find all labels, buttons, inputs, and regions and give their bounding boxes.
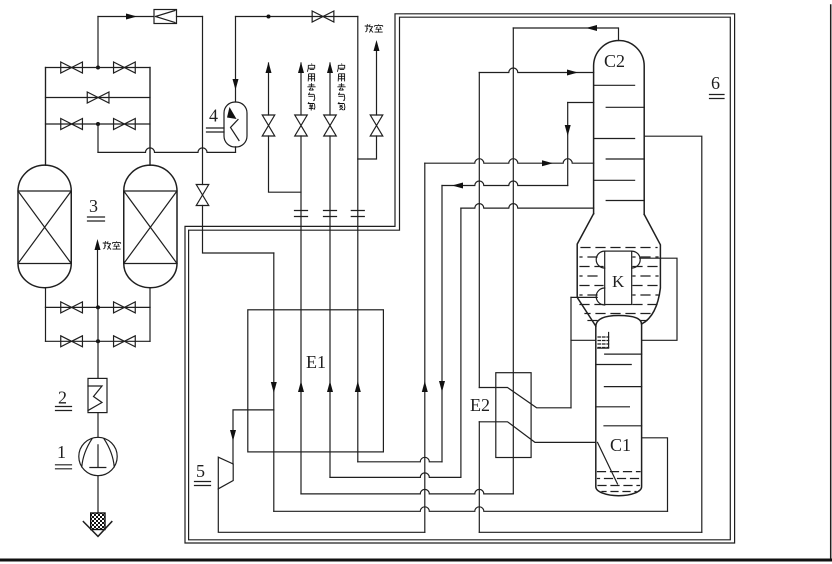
filter U2 zigzag bbox=[88, 386, 102, 411]
vent arrow mid bbox=[95, 239, 101, 250]
line vent riser bbox=[376, 51, 378, 115]
wire C1 feed drop bbox=[478, 422, 480, 533]
line O2 riser bbox=[268, 63, 270, 115]
sump shell left bbox=[577, 214, 596, 326]
manifold left bus bbox=[45, 68, 47, 166]
C2 tray 5 bbox=[594, 179, 635, 181]
valve VE1 bbox=[61, 336, 83, 347]
valve V10 bbox=[370, 115, 383, 136]
wire C2 upper tap bbox=[567, 103, 569, 186]
wire pump outlet bbox=[97, 476, 99, 513]
cold box 6 inner border bbox=[189, 17, 731, 540]
valve VD1 bbox=[61, 302, 83, 313]
node J2 bbox=[96, 122, 100, 126]
svg-text:C2: C2 bbox=[604, 51, 625, 71]
filter F1 bbox=[154, 10, 177, 24]
indicator U4 needle bbox=[231, 120, 240, 141]
C1 tray 3 bbox=[604, 386, 641, 388]
adsorber 1 bottom stem bbox=[45, 288, 47, 308]
line product 2 riser bbox=[329, 63, 331, 115]
valve VC1 bbox=[61, 119, 83, 130]
wire filter2 to pump bbox=[97, 413, 99, 438]
valve V9 bbox=[324, 115, 337, 136]
svg-text:K: K bbox=[612, 272, 625, 291]
wire V7 jog bbox=[269, 136, 302, 192]
column C2 shell bbox=[594, 40, 645, 214]
wire line E bbox=[218, 489, 424, 533]
line product 1 down bbox=[300, 136, 302, 494]
wire regen to gauge bbox=[97, 124, 99, 152]
wire top header drop bbox=[357, 17, 359, 462]
C1 liquid dashes bbox=[598, 471, 641, 473]
heat exchanger E1 bbox=[248, 310, 384, 452]
valve V5 bbox=[196, 185, 209, 206]
manifold row1 wire bbox=[46, 67, 151, 69]
svg-text:E1: E1 bbox=[306, 352, 326, 372]
wire line A riser bbox=[441, 186, 443, 462]
C1 tray 1 bbox=[605, 353, 642, 355]
wire down to valve V5 bbox=[202, 17, 204, 185]
manifold left bus low bbox=[45, 307, 47, 341]
svg-text:E2: E2 bbox=[470, 395, 490, 415]
C1 tray 5 bbox=[604, 425, 642, 427]
C2 tray 3 bbox=[594, 138, 635, 140]
valve VE2 bbox=[114, 336, 136, 347]
wire line D bbox=[274, 507, 668, 512]
C2 tray 4 bbox=[606, 158, 644, 160]
svg-text:3: 3 bbox=[89, 196, 98, 216]
node J3 bbox=[267, 15, 271, 19]
wire line D riser bbox=[642, 438, 668, 512]
condenser K lobe TL bbox=[596, 251, 604, 268]
expander U5 bbox=[218, 457, 233, 489]
valve VA1 bbox=[61, 62, 83, 73]
wire C2 top line bbox=[513, 28, 618, 41]
svg-text:C1: C1 bbox=[610, 435, 631, 455]
wire expander inlet bbox=[233, 410, 274, 464]
label vent top bbox=[365, 24, 373, 32]
valve VB1 bbox=[87, 92, 109, 103]
wire line B to C2 bbox=[461, 204, 594, 209]
manifold row4 wire bbox=[46, 306, 151, 308]
wire K feed drop bbox=[478, 73, 480, 388]
wire U4 top bbox=[235, 17, 237, 103]
wire K feed to E2 bbox=[479, 388, 571, 408]
wire K to C1 tap bbox=[571, 339, 596, 341]
adsorber vessel 1 shell bbox=[18, 165, 71, 288]
adsorber 2 bottom stem bbox=[149, 288, 151, 308]
wire E1 feed vertical bbox=[273, 253, 275, 511]
C1 tray 2 bbox=[596, 364, 631, 366]
pump U1 body bbox=[79, 437, 117, 475]
svg-text:1: 1 bbox=[57, 442, 66, 462]
indicator U4 body bbox=[224, 102, 247, 147]
valve VC2 bbox=[114, 119, 136, 130]
filter U2 body bbox=[88, 378, 107, 412]
wire line E riser bbox=[424, 163, 426, 532]
node J4 bbox=[96, 305, 100, 309]
wire V10 jog bbox=[358, 136, 377, 159]
C1 packing box bbox=[598, 333, 609, 349]
line product 2 down bbox=[329, 136, 331, 477]
manifold right bus bbox=[149, 68, 151, 166]
C2 tray 1 bbox=[594, 84, 635, 86]
adsorber 2 top stem bbox=[149, 68, 151, 166]
wire to filter 2 bbox=[97, 341, 99, 378]
svg-text:4: 4 bbox=[209, 106, 218, 126]
C2 tray 2 bbox=[606, 106, 644, 108]
wire filter to corner bbox=[177, 16, 203, 18]
cold box 6 outer border bbox=[185, 14, 735, 543]
condenser K lobe BL bbox=[596, 288, 604, 305]
svg-text:5: 5 bbox=[196, 461, 205, 481]
wire line B riser bbox=[460, 208, 462, 477]
svg-text:2: 2 bbox=[58, 388, 67, 408]
page right border bbox=[830, 5, 832, 558]
intake muffler bbox=[91, 513, 105, 530]
wire line C bbox=[301, 489, 513, 494]
tick marks line1 bbox=[295, 211, 308, 217]
condenser K lobe TR bbox=[632, 251, 641, 268]
valve VD2 bbox=[114, 302, 136, 313]
wire filter inlet bbox=[98, 16, 154, 18]
C1 tray 4 bbox=[596, 406, 630, 408]
pump U1 internals bbox=[90, 445, 106, 468]
wire K feed riser bbox=[570, 297, 572, 407]
page bottom frame line bbox=[0, 559, 832, 562]
column C1 shell bbox=[596, 324, 642, 496]
label oxygen to users bbox=[307, 64, 314, 72]
node J5 bbox=[96, 339, 100, 343]
wire line B bbox=[330, 473, 461, 478]
intake chevron bbox=[83, 522, 111, 537]
heat exchanger E2 bbox=[496, 373, 531, 458]
wire riser to manifold bbox=[97, 17, 99, 68]
label nitrogen to users bbox=[337, 64, 344, 72]
wire top header bbox=[236, 16, 358, 18]
wire C1 feed bbox=[479, 422, 596, 443]
manifold row3 wire bbox=[46, 123, 151, 125]
wire line F bbox=[479, 531, 702, 533]
tick marks line2 bbox=[324, 211, 337, 217]
sump liquid level dashes bbox=[581, 247, 657, 249]
wire V5 to E1 feed corner bbox=[203, 206, 274, 254]
wire row4-row5 center bbox=[97, 307, 99, 341]
svg-text:6: 6 bbox=[711, 73, 720, 93]
condenser K body bbox=[605, 251, 632, 304]
sump shell right bbox=[642, 214, 661, 324]
adsorber 1 top stem bbox=[45, 68, 47, 166]
vent wire mid bbox=[97, 251, 99, 308]
wire line C riser bbox=[512, 28, 514, 494]
C1 dome bbox=[596, 316, 642, 327]
line product 1 riser bbox=[300, 63, 302, 115]
C2 tray 6 bbox=[606, 200, 644, 202]
valve VA2 bbox=[114, 62, 136, 73]
manifold right bus low bbox=[149, 307, 151, 341]
valve V7 bbox=[262, 115, 275, 136]
wire K return bbox=[640, 258, 677, 340]
valve V8 bbox=[295, 115, 308, 136]
wire line A bbox=[358, 457, 442, 462]
wire K feed to C2 bbox=[479, 68, 593, 73]
tick marks line3 bbox=[351, 211, 364, 217]
manifold row5 wire bbox=[46, 340, 151, 342]
manifold row2 wire bbox=[46, 97, 151, 99]
wire line E to C2 bbox=[425, 159, 594, 164]
valve V6 bbox=[312, 11, 334, 22]
wire line F riser bbox=[644, 136, 702, 532]
node J1 bbox=[96, 66, 100, 70]
wire C1 dip tube bbox=[598, 442, 618, 484]
wire to K condenser bbox=[571, 296, 597, 298]
wire line A to C2 bbox=[442, 181, 568, 186]
adsorber vessel 2 shell bbox=[124, 165, 177, 288]
